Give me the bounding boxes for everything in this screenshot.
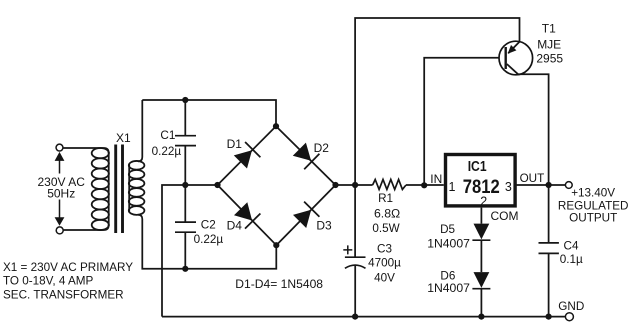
wire terminal-top to primary (63, 148, 108, 153)
wire base junction up to T1 base (424, 58, 499, 186)
svg-text:COM: COM (491, 209, 519, 223)
diode D2 (293, 143, 320, 170)
wire junction to bridge left node (185, 184, 217, 186)
transformer X1 primary winding (92, 148, 109, 230)
svg-text:2955: 2955 (536, 52, 563, 66)
ground rail wire (162, 316, 565, 318)
svg-text:1N4007: 1N4007 (427, 281, 470, 295)
wire secondary-bottom down and right to bridge bottom (138, 215, 276, 269)
AC input terminal top (56, 144, 63, 151)
diode D6 (472, 272, 490, 289)
svg-text:D2: D2 (314, 141, 330, 155)
node output junction (546, 182, 552, 188)
svg-text:OUT: OUT (520, 172, 545, 185)
wire IC1 COM down to D5 (480, 208, 482, 224)
svg-text:4700µ: 4700µ (368, 256, 401, 269)
arrow 230V AC double-headed (55, 152, 65, 226)
diode D1 (234, 142, 261, 169)
svg-text:R1: R1 (378, 192, 393, 205)
node base-IN junction (421, 182, 427, 188)
node C1-C2 junction (182, 182, 188, 188)
resistor R1 (373, 180, 406, 190)
node C2 bottom (182, 266, 188, 272)
svg-text:C3: C3 (377, 242, 392, 255)
svg-text:C4: C4 (564, 239, 579, 252)
svg-text:C2: C2 (201, 219, 216, 232)
svg-text:D5: D5 (440, 223, 455, 236)
node raw DC junction (352, 182, 358, 188)
wire D5 to D6 (480, 240, 482, 272)
node bridge right (332, 182, 338, 188)
svg-text:0.22µ: 0.22µ (152, 145, 182, 158)
node bridge bottom (273, 242, 279, 248)
svg-text:C1: C1 (160, 129, 175, 142)
bridge wire top-right edge (276, 126, 336, 185)
svg-text:0.1µ: 0.1µ (560, 253, 583, 266)
node C4 ground (546, 314, 552, 320)
wire AC top rail to bridge top (142, 100, 276, 126)
svg-text:X1 = 230V AC PRIMARY: X1 = 230V AC PRIMARY (3, 261, 133, 274)
capacitor C2 (175, 185, 196, 269)
bridge wire left-bottom edge (218, 185, 277, 245)
svg-text:3: 3 (505, 180, 512, 194)
bridge wire left-top edge (218, 126, 277, 185)
svg-text:+13.40V: +13.40V (571, 187, 615, 200)
transistor T1 (499, 41, 533, 75)
svg-text:IC1: IC1 (468, 159, 487, 175)
wire D6 to ground rail (480, 289, 482, 317)
capacitor C1 (175, 100, 196, 185)
node D6 ground (478, 314, 484, 320)
wire R1 to IC1 IN (406, 184, 444, 186)
svg-text:0.22µ: 0.22µ (194, 233, 224, 246)
svg-text:TO 0-18V, 4 AMP: TO 0-18V, 4 AMP (3, 274, 94, 287)
AC input terminal bottom (56, 227, 63, 234)
svg-text:1N4007: 1N4007 (427, 237, 470, 251)
note X1 transformer description (3, 261, 133, 302)
node bridge left (214, 182, 220, 188)
diode D5 (472, 224, 490, 241)
transformer X1 core (116, 145, 123, 234)
node C1 top on AC rail (182, 97, 188, 103)
svg-text:OUTPUT: OUTPUT (569, 211, 617, 224)
output terminal (565, 182, 572, 189)
svg-text:6.8Ω: 6.8Ω (374, 206, 400, 220)
IC1 7812 regulator box (446, 155, 516, 206)
svg-text:SEC. TRANSFORMER: SEC. TRANSFORMER (3, 288, 124, 301)
wire junction left and down to ground rail (162, 185, 185, 317)
wire bridge right to R1 (336, 184, 373, 186)
wire T1 collector to output node (518, 74, 549, 185)
wire raw DC up over to transistor emitter (355, 18, 519, 185)
diode D3 (293, 202, 319, 228)
svg-text:D1: D1 (227, 137, 243, 151)
node C3 bottom (352, 314, 358, 320)
svg-text:0.5W: 0.5W (372, 222, 399, 235)
wire terminal-bottom to primary (63, 225, 108, 230)
svg-text:D1-D4= 1N5408: D1-D4= 1N5408 (235, 277, 323, 291)
svg-text:MJE: MJE (537, 37, 561, 51)
svg-text:D4: D4 (227, 218, 243, 232)
GND terminal (565, 313, 573, 321)
transformer X1 secondary winding (129, 161, 145, 215)
svg-text:X1: X1 (116, 131, 131, 145)
svg-text:1: 1 (449, 180, 456, 194)
svg-text:T1: T1 (542, 22, 556, 36)
diode D4 (234, 202, 260, 228)
node bridge top (273, 123, 279, 129)
capacitor C3 polarized (343, 185, 365, 317)
wire secondary-top up to AC rail (138, 100, 142, 161)
svg-text:D3: D3 (316, 218, 332, 232)
wire IC1 OUT to output terminal (515, 184, 565, 186)
svg-text:IN: IN (430, 172, 442, 186)
bridge wire bottom-right edge (276, 185, 335, 245)
svg-text:2: 2 (480, 194, 487, 208)
svg-text:50Hz: 50Hz (47, 187, 75, 201)
svg-text:GND: GND (558, 300, 584, 313)
capacitor C4 (539, 185, 559, 317)
svg-text:40V: 40V (374, 271, 395, 284)
